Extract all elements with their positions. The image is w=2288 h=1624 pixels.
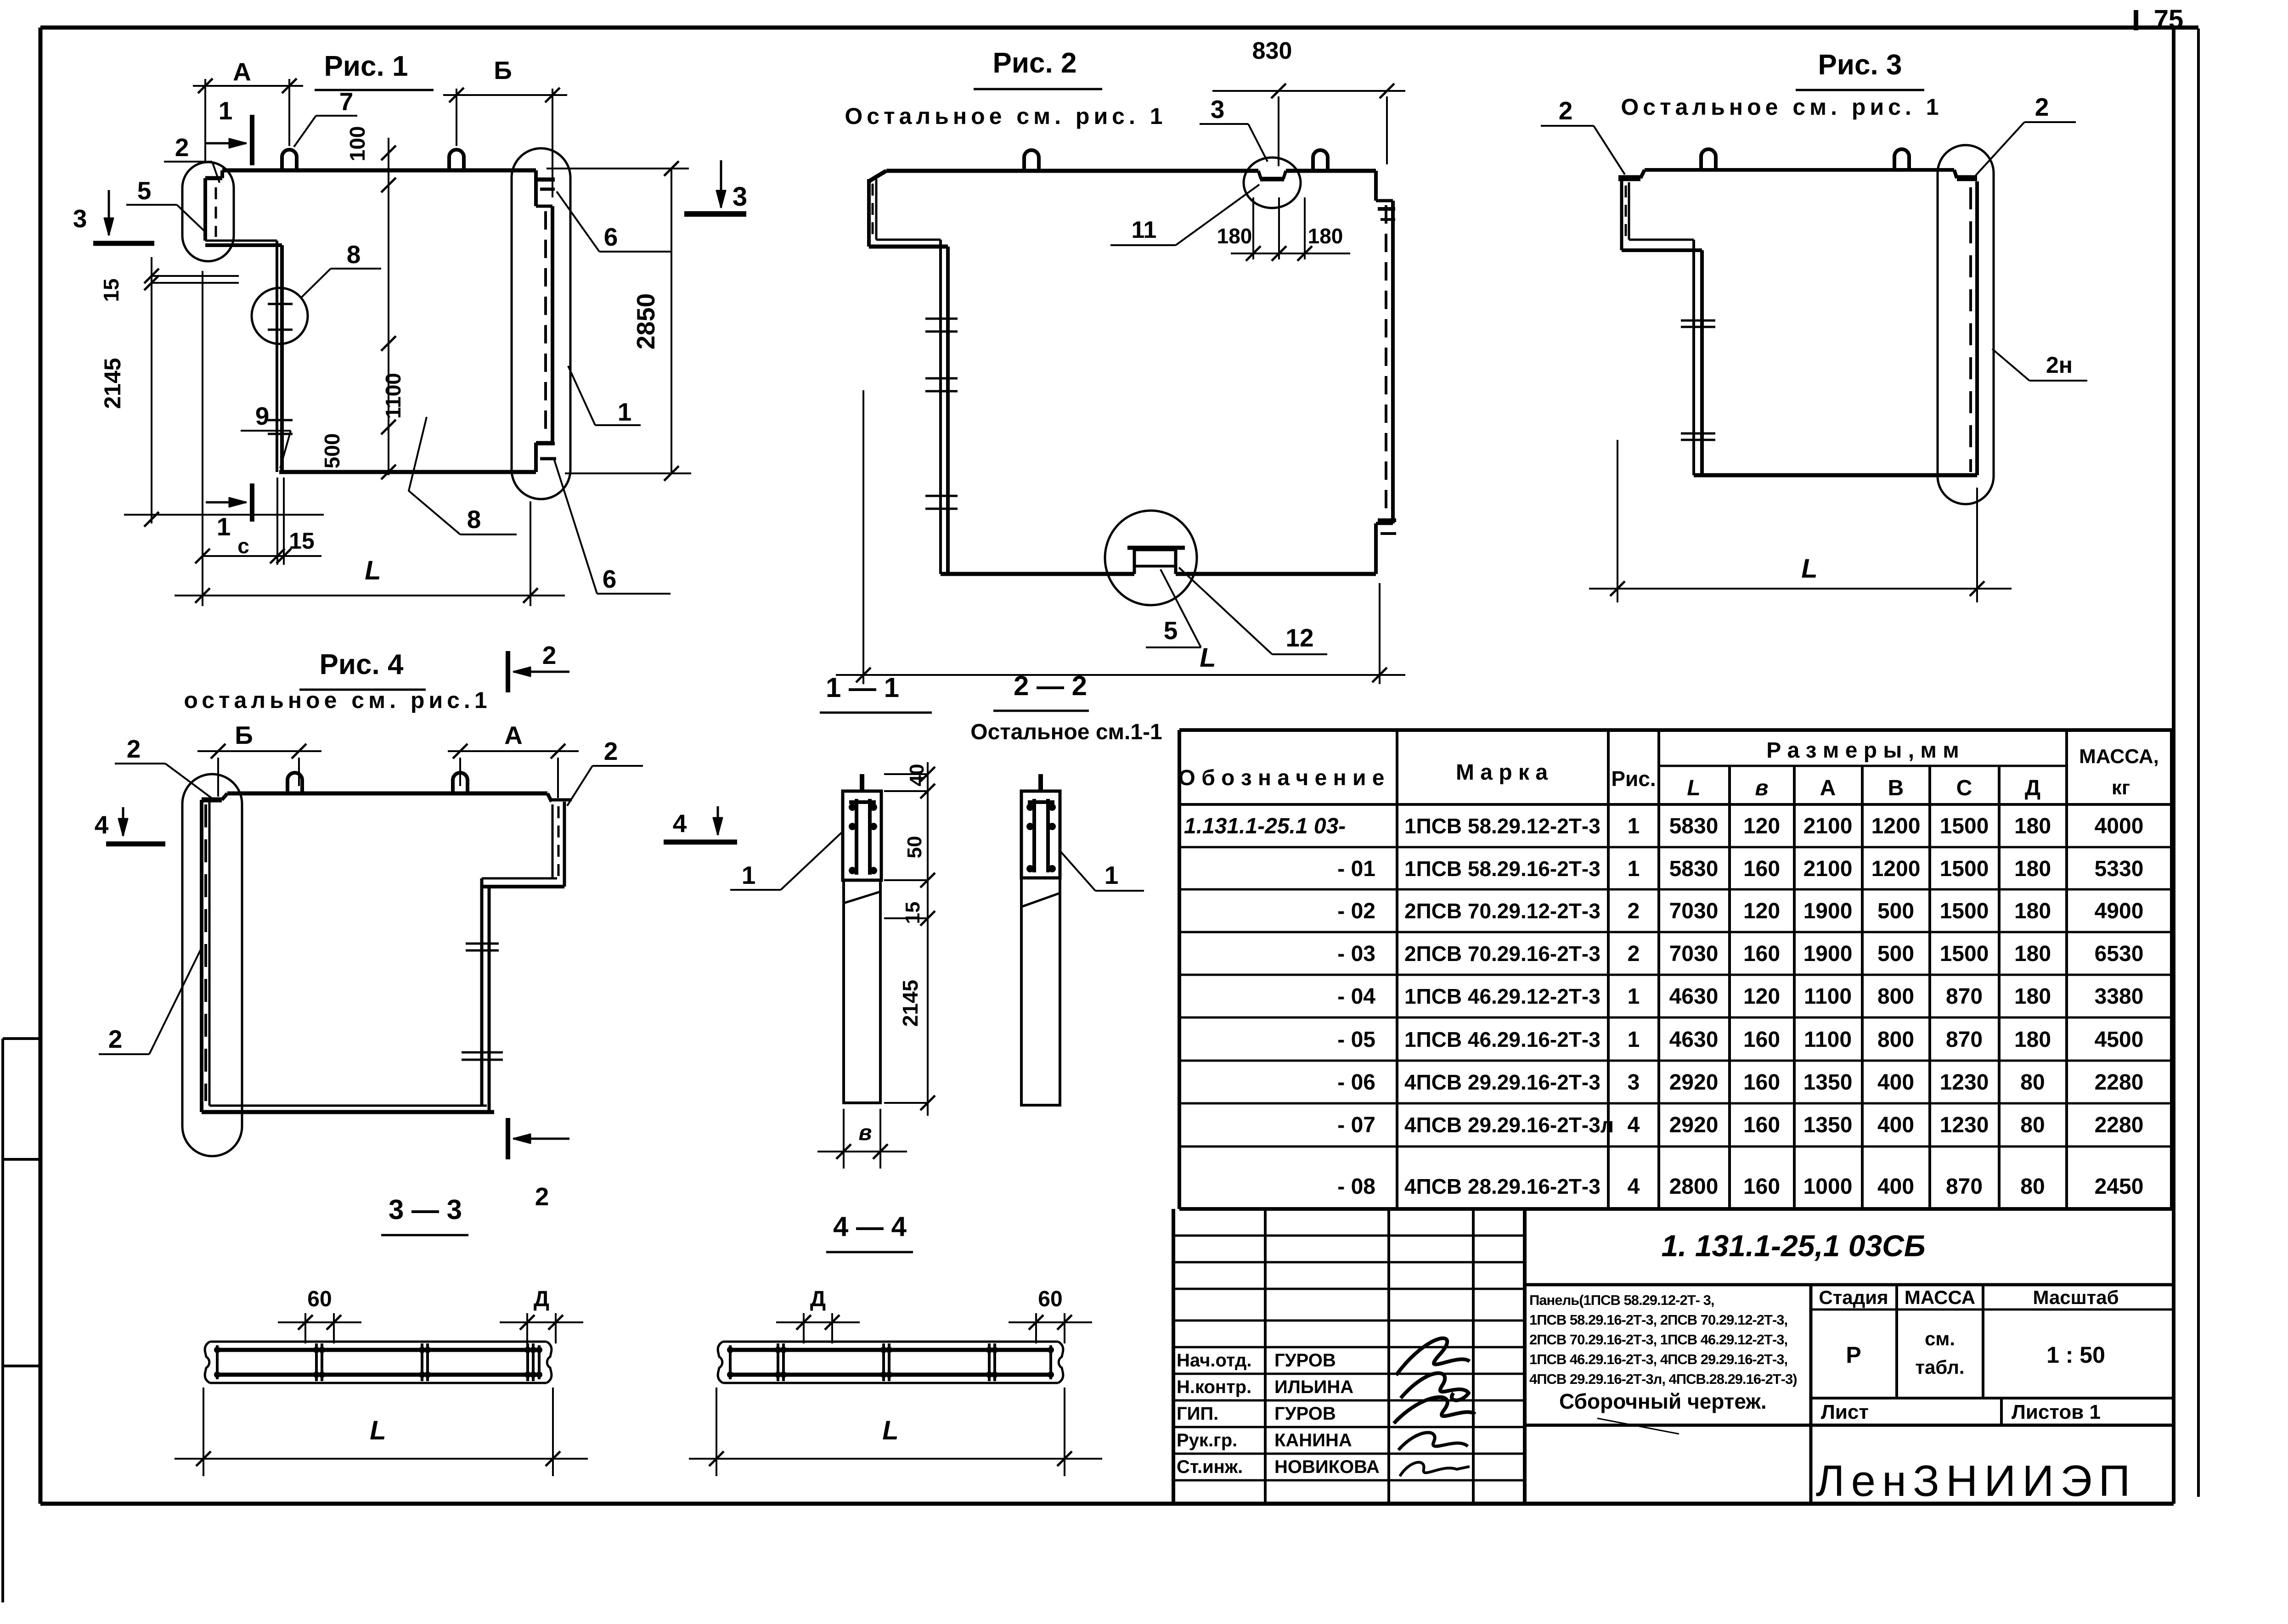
svg-text:4: 4 — [1628, 1113, 1640, 1137]
svg-text:Р: Р — [1846, 1342, 1861, 1368]
svg-text:160: 160 — [1743, 1174, 1780, 1199]
svg-text:180: 180 — [2014, 814, 2051, 838]
svg-text:180: 180 — [2014, 984, 2051, 1009]
svg-text:2920: 2920 — [1669, 1070, 1719, 1095]
svg-text:Рис. 1: Рис. 1 — [324, 51, 408, 82]
svg-text:2100: 2100 — [1803, 814, 1853, 838]
svg-text:- 01: - 01 — [1337, 857, 1375, 881]
svg-text:1500: 1500 — [1940, 942, 1989, 966]
svg-text:5: 5 — [137, 176, 152, 205]
svg-text:1500: 1500 — [1940, 814, 1989, 838]
svg-text:- 08: - 08 — [1337, 1174, 1375, 1199]
svg-text:L: L — [365, 556, 381, 585]
svg-text:2ПСВ 70.29.16-2Т-3, 1ПСВ 46.2: 2ПСВ 70.29.16-2Т-3, 1ПСВ 46.29.12-2Т-3, — [1529, 1332, 1787, 1348]
svg-text:9: 9 — [255, 402, 270, 430]
svg-text:15: 15 — [289, 528, 315, 554]
svg-text:1: 1 — [1105, 861, 1119, 889]
svg-text:Б: Б — [494, 56, 512, 84]
svg-text:1ПСВ 46.29.12-2Т-3: 1ПСВ 46.29.12-2Т-3 — [1404, 984, 1600, 1008]
svg-text:160: 160 — [1743, 942, 1780, 966]
svg-text:1: 1 — [1628, 857, 1640, 881]
svg-text:1900: 1900 — [1803, 942, 1853, 966]
svg-text:1ПСВ 58.29.16-2Т-3: 1ПСВ 58.29.16-2Т-3 — [1404, 857, 1600, 881]
svg-text:Ст.инж.: Ст.инж. — [1177, 1457, 1243, 1477]
svg-text:МАССА: МАССА — [1905, 1287, 1975, 1308]
svg-text:180: 180 — [2014, 942, 2051, 966]
svg-text:ЛенЗНИИЭП: ЛенЗНИИЭП — [1816, 1456, 2137, 1506]
svg-text:Б: Б — [235, 721, 253, 749]
svg-text:в: в — [859, 1121, 872, 1145]
svg-text:1. 131.1-25,1 03СБ: 1. 131.1-25,1 03СБ — [1661, 1229, 1925, 1263]
svg-text:1000: 1000 — [1803, 1174, 1853, 1199]
svg-text:1900: 1900 — [1803, 899, 1853, 923]
svg-text:3: 3 — [73, 204, 87, 233]
svg-text:8: 8 — [467, 505, 481, 534]
svg-text:2: 2 — [127, 735, 141, 763]
svg-text:1: 1 — [1628, 814, 1640, 838]
svg-text:4 — 4: 4 — 4 — [833, 1211, 907, 1242]
svg-text:2: 2 — [1628, 899, 1640, 923]
svg-text:400: 400 — [1877, 1174, 1914, 1199]
svg-text:180: 180 — [2014, 857, 2051, 881]
svg-text:Рис. 2: Рис. 2 — [993, 47, 1077, 79]
svg-text:80: 80 — [2020, 1113, 2045, 1137]
svg-text:500: 500 — [1877, 899, 1914, 923]
svg-text:L: L — [1687, 776, 1700, 800]
svg-text:С: С — [1956, 776, 1972, 800]
svg-text:160: 160 — [1743, 1070, 1780, 1095]
svg-text:1 : 50: 1 : 50 — [2046, 1342, 2105, 1368]
svg-text:О б о з н а ч е н и е: О б о з н а ч е н и е — [1178, 766, 1385, 790]
svg-text:1100: 1100 — [1804, 1028, 1852, 1052]
svg-text:3 — 3: 3 — 3 — [389, 1194, 462, 1225]
svg-text:L: L — [1801, 554, 1817, 584]
svg-text:12: 12 — [1285, 624, 1313, 652]
svg-text:3: 3 — [1628, 1070, 1640, 1095]
svg-text:2: 2 — [175, 133, 189, 162]
svg-text:180: 180 — [1217, 224, 1252, 248]
svg-text:- 06: - 06 — [1337, 1070, 1375, 1095]
svg-text:180: 180 — [2014, 1028, 2051, 1052]
svg-text:4500: 4500 — [2095, 1028, 2144, 1052]
svg-text:1350: 1350 — [1803, 1113, 1853, 1137]
svg-text:100: 100 — [345, 126, 369, 162]
svg-text:А: А — [504, 721, 523, 749]
svg-text:160: 160 — [1743, 1113, 1780, 1137]
svg-text:1500: 1500 — [1940, 899, 1989, 923]
svg-text:2 — 2: 2 — 2 — [1014, 670, 1087, 701]
svg-text:2100: 2100 — [1803, 857, 1853, 881]
svg-text:1: 1 — [219, 96, 233, 125]
svg-text:7030: 7030 — [1669, 942, 1719, 966]
svg-text:Лист: Лист — [1821, 1401, 1869, 1423]
svg-text:1200: 1200 — [1871, 857, 1921, 881]
svg-text:120: 120 — [1743, 899, 1780, 923]
svg-text:Рис. 3: Рис. 3 — [1818, 49, 1902, 81]
svg-text:2145: 2145 — [100, 358, 125, 409]
svg-text:Н.контр.: Н.контр. — [1177, 1377, 1251, 1397]
svg-text:Масштаб: Масштаб — [2033, 1287, 2119, 1308]
svg-text:50: 50 — [903, 836, 926, 859]
svg-text:75: 75 — [2154, 5, 2184, 34]
svg-text:3380: 3380 — [2095, 984, 2144, 1009]
svg-text:120: 120 — [1743, 984, 1780, 1009]
svg-text:4: 4 — [673, 809, 687, 837]
svg-text:15: 15 — [902, 902, 924, 924]
svg-text:Сборочный чертеж.: Сборочный чертеж. — [1559, 1389, 1767, 1413]
svg-text:3: 3 — [1211, 95, 1225, 124]
svg-text:800: 800 — [1877, 984, 1914, 1009]
svg-text:2: 2 — [108, 1025, 123, 1053]
svg-text:2145: 2145 — [898, 980, 922, 1027]
svg-text:80: 80 — [2020, 1070, 2045, 1095]
svg-text:Остальное см. рис. 1: Остальное см. рис. 1 — [1621, 94, 1943, 120]
svg-text:6: 6 — [603, 565, 617, 593]
svg-text:М а р к а: М а р к а — [1456, 760, 1548, 785]
svg-text:1ПСВ 58.29.16-2Т-3, 2ПСВ 70.2: 1ПСВ 58.29.16-2Т-3, 2ПСВ 70.29.12-2Т-3, — [1529, 1312, 1787, 1328]
svg-text:остальное см. рис.1: остальное см. рис.1 — [184, 687, 491, 713]
svg-text:1230: 1230 — [1940, 1070, 1989, 1095]
svg-text:80: 80 — [2020, 1174, 2045, 1199]
svg-text:L: L — [1200, 643, 1216, 673]
svg-text:6530: 6530 — [2095, 942, 2144, 966]
svg-text:400: 400 — [1877, 1113, 1914, 1137]
svg-text:1100: 1100 — [1804, 984, 1852, 1009]
svg-text:6: 6 — [604, 223, 618, 251]
svg-text:Д: Д — [534, 1287, 549, 1311]
svg-text:4630: 4630 — [1669, 1028, 1719, 1052]
svg-text:7: 7 — [339, 87, 354, 116]
svg-text:Стадия: Стадия — [1819, 1287, 1888, 1308]
svg-text:1100: 1100 — [381, 373, 405, 419]
svg-text:Остальное см. рис. 1: Остальное см. рис. 1 — [845, 103, 1167, 129]
svg-text:120: 120 — [1743, 814, 1780, 838]
svg-text:Рис.: Рис. — [1611, 767, 1656, 791]
svg-text:c: c — [237, 534, 249, 558]
svg-text:1200: 1200 — [1871, 814, 1921, 838]
svg-text:ГУРОВ: ГУРОВ — [1274, 1350, 1336, 1371]
svg-text:2: 2 — [1628, 942, 1640, 966]
svg-text:Нач.отд.: Нач.отд. — [1177, 1350, 1251, 1371]
svg-text:4: 4 — [1628, 1174, 1640, 1199]
svg-text:2ПСВ 70.29.16-2Т-3: 2ПСВ 70.29.16-2Т-3 — [1404, 942, 1600, 966]
svg-text:2280: 2280 — [2095, 1113, 2144, 1137]
svg-text:870: 870 — [1946, 1174, 1983, 1199]
svg-text:1ПСВ 46.29.16-2Т-3, 4ПСВ 29.2: 1ПСВ 46.29.16-2Т-3, 4ПСВ 29.29.16-2Т-3, — [1529, 1351, 1787, 1367]
svg-text:2: 2 — [2035, 93, 2049, 121]
svg-text:1ПСВ 46.29.16-2Т-3: 1ПСВ 46.29.16-2Т-3 — [1404, 1028, 1600, 1051]
svg-text:2: 2 — [1559, 96, 1573, 125]
svg-text:см.: см. — [1925, 1328, 1955, 1349]
svg-text:4: 4 — [95, 810, 109, 839]
svg-text:830: 830 — [1252, 38, 1292, 64]
svg-text:60: 60 — [307, 1287, 332, 1311]
svg-text:А: А — [233, 57, 251, 86]
svg-text:180: 180 — [2014, 899, 2051, 923]
svg-text:160: 160 — [1743, 1028, 1780, 1052]
svg-text:ИЛЬИНА: ИЛЬИНА — [1274, 1377, 1353, 1397]
svg-text:Д: Д — [2025, 776, 2040, 800]
svg-text:L: L — [882, 1416, 898, 1445]
svg-text:- 07: - 07 — [1337, 1113, 1375, 1137]
svg-text:2800: 2800 — [1669, 1174, 1719, 1199]
svg-text:160: 160 — [1743, 857, 1780, 881]
svg-text:4ПСВ 29.29.16-2Т-3л: 4ПСВ 29.29.16-2Т-3л — [1404, 1113, 1614, 1137]
svg-text:4ПСВ 29.29.16-2Т-3: 4ПСВ 29.29.16-2Т-3 — [1404, 1070, 1600, 1094]
svg-text:1: 1 — [217, 512, 231, 541]
svg-text:2: 2 — [604, 737, 618, 765]
svg-text:МАССА,: МАССА, — [2079, 745, 2159, 768]
svg-text:2н: 2н — [2046, 352, 2073, 378]
svg-text:5330: 5330 — [2095, 857, 2144, 881]
svg-text:7030: 7030 — [1669, 899, 1719, 923]
svg-text:ГИП.: ГИП. — [1177, 1404, 1218, 1424]
svg-text:НОВИКОВА: НОВИКОВА — [1274, 1457, 1380, 1477]
svg-text:2: 2 — [535, 1182, 549, 1211]
svg-text:1.131.1-25.1 03-: 1.131.1-25.1 03- — [1184, 814, 1346, 838]
svg-text:2850: 2850 — [631, 293, 660, 349]
svg-text:L: L — [370, 1416, 386, 1445]
svg-text:кг: кг — [2112, 776, 2130, 799]
svg-text:11: 11 — [1132, 217, 1157, 243]
svg-text:400: 400 — [1877, 1070, 1914, 1095]
svg-text:2ПСВ 70.29.12-2Т-3: 2ПСВ 70.29.12-2Т-3 — [1404, 899, 1600, 923]
svg-text:- 05: - 05 — [1337, 1028, 1375, 1052]
svg-text:1: 1 — [1628, 1028, 1640, 1052]
svg-text:40: 40 — [906, 764, 928, 787]
svg-text:Рис. 4: Рис. 4 — [320, 649, 404, 680]
svg-text:1350: 1350 — [1803, 1070, 1853, 1095]
svg-text:табл.: табл. — [1915, 1356, 1964, 1378]
svg-text:5: 5 — [1164, 616, 1178, 645]
svg-text:Остальное см.1-1: Остальное см.1-1 — [970, 720, 1162, 744]
svg-text:4900: 4900 — [2095, 899, 2144, 923]
svg-text:1ПСВ 58.29.12-2Т-3: 1ПСВ 58.29.12-2Т-3 — [1404, 814, 1600, 838]
svg-text:в: в — [1755, 776, 1769, 800]
svg-text:2450: 2450 — [2095, 1174, 2144, 1199]
svg-text:Д: Д — [810, 1287, 826, 1311]
svg-text:15: 15 — [99, 278, 123, 302]
svg-text:3: 3 — [733, 182, 747, 212]
svg-text:4000: 4000 — [2095, 814, 2144, 838]
svg-text:4ПСВ 28.29.16-2Т-3: 4ПСВ 28.29.16-2Т-3 — [1404, 1174, 1600, 1198]
svg-text:2280: 2280 — [2095, 1070, 2144, 1095]
svg-text:800: 800 — [1877, 1028, 1914, 1052]
svg-text:5830: 5830 — [1669, 857, 1719, 881]
svg-text:8: 8 — [347, 240, 361, 269]
svg-text:Листов 1: Листов 1 — [2012, 1401, 2101, 1423]
svg-text:ГУРОВ: ГУРОВ — [1274, 1404, 1336, 1424]
svg-text:4ПСВ 29.29.16-2Т-3л, 4ПСВ.28.2: 4ПСВ 29.29.16-2Т-3л, 4ПСВ.28.29.16-2Т-3) — [1529, 1371, 1797, 1387]
svg-text:500: 500 — [320, 433, 344, 469]
svg-text:60: 60 — [1038, 1287, 1062, 1311]
svg-text:Рук.гр.: Рук.гр. — [1177, 1430, 1237, 1450]
svg-text:Р а з м е р ы , м м: Р а з м е р ы , м м — [1766, 738, 1959, 763]
svg-text:500: 500 — [1877, 942, 1914, 966]
svg-text:870: 870 — [1946, 1028, 1983, 1052]
svg-text:А: А — [1820, 776, 1836, 800]
svg-text:1 — 1: 1 — 1 — [826, 672, 899, 703]
svg-text:2920: 2920 — [1669, 1113, 1719, 1137]
svg-text:5830: 5830 — [1669, 814, 1719, 838]
svg-text:- 04: - 04 — [1337, 984, 1375, 1009]
svg-text:1: 1 — [1628, 984, 1640, 1009]
svg-text:2: 2 — [542, 641, 557, 669]
svg-text:870: 870 — [1946, 984, 1983, 1009]
svg-text:180: 180 — [1308, 224, 1343, 248]
svg-text:Панель(1ПСВ 58.29.12-2Т- 3,: Панель(1ПСВ 58.29.12-2Т- 3, — [1529, 1292, 1714, 1308]
svg-text:4630: 4630 — [1669, 984, 1719, 1009]
svg-text:1500: 1500 — [1940, 857, 1989, 881]
svg-text:1230: 1230 — [1940, 1113, 1989, 1137]
svg-text:- 02: - 02 — [1337, 899, 1375, 923]
svg-text:1: 1 — [742, 861, 756, 889]
svg-text:В: В — [1888, 776, 1904, 800]
svg-text:КАНИНА: КАНИНА — [1274, 1430, 1352, 1450]
svg-text:1: 1 — [618, 398, 632, 426]
svg-text:- 03: - 03 — [1337, 942, 1375, 966]
